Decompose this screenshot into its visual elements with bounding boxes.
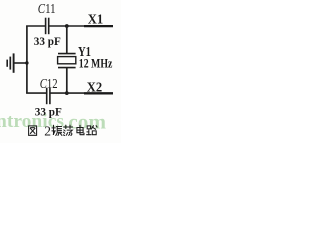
caption glyph 电	[77, 125, 84, 134]
wire left rail	[26, 26, 28, 93]
wire X2 pin (bold underline)	[84, 92, 113, 94]
caption glyph 图	[29, 126, 37, 135]
svg-text:X1: X1	[88, 13, 103, 28]
ground	[7, 53, 13, 72]
svg-text:12 MHz: 12 MHz	[79, 55, 113, 70]
wire crystal top lead	[66, 26, 68, 54]
node junction top (crystal tap)	[65, 24, 69, 28]
caption glyph 路	[87, 126, 98, 135]
wire X1 pin (bold underline)	[84, 25, 113, 27]
svg-text:X2: X2	[87, 80, 102, 95]
wire top rail left segment	[26, 25, 45, 27]
capacitor C12	[47, 88, 50, 105]
caption 图2振荡电路	[29, 123, 98, 138]
node junction bottom	[65, 91, 69, 95]
svg-text:33 pF: 33 pF	[34, 34, 61, 48]
wire bottom rail left segment	[26, 92, 46, 94]
wire bottom rail right segment	[50, 92, 113, 94]
wire ground stub	[14, 62, 28, 64]
node ground junction	[25, 61, 28, 64]
capacitor C11	[46, 18, 49, 35]
caption glyph 荡	[63, 125, 72, 135]
wire crystal bottom lead	[66, 68, 68, 94]
caption glyph 振	[52, 125, 62, 135]
svg-text:C11: C11	[38, 2, 56, 17]
svg-text:C12: C12	[40, 77, 58, 92]
svg-text:2: 2	[44, 123, 51, 138]
watermark cntronics.com	[0, 110, 106, 134]
crystal Y1	[58, 54, 76, 68]
svg-text:33 pF: 33 pF	[35, 104, 62, 118]
wire top rail right segment	[49, 25, 113, 27]
